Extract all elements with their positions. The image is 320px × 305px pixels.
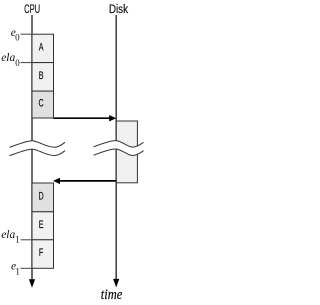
label CPU <box>24 4 40 17</box>
svg-text:time: time <box>101 286 123 302</box>
svg-text:Disk: Disk <box>109 3 128 16</box>
disk service box <box>116 121 137 183</box>
svg-text:D: D <box>39 189 44 202</box>
box E <box>32 212 54 240</box>
box B <box>32 63 54 92</box>
label e0 <box>11 27 20 43</box>
box D <box>32 183 54 212</box>
request arrow CPU to Disk <box>54 115 117 121</box>
svg-text:1: 1 <box>15 235 20 245</box>
Disk timeline <box>115 15 117 280</box>
CPU timeline <box>31 15 33 280</box>
label time <box>101 286 123 302</box>
svg-text:F: F <box>39 245 44 258</box>
svg-text:B: B <box>39 68 44 81</box>
box F <box>32 240 54 268</box>
tick e1 <box>21 267 33 269</box>
label ela0 <box>1 52 20 68</box>
svg-text:C: C <box>39 96 44 109</box>
Disk break wave lower <box>94 149 144 156</box>
svg-text:ela: ela <box>1 52 15 64</box>
svg-text:0: 0 <box>15 33 20 43</box>
svg-text:1: 1 <box>15 266 20 276</box>
tick ela0 <box>21 62 33 64</box>
box C <box>32 91 54 118</box>
svg-text:E: E <box>39 217 44 230</box>
CPU break wave upper <box>10 141 66 148</box>
Disk break wave upper <box>94 141 144 148</box>
label ela1 <box>1 229 20 245</box>
CPU timeline end arrowhead <box>29 279 35 288</box>
box A <box>32 34 54 62</box>
completion arrow Disk to CPU <box>53 178 116 184</box>
svg-text:A: A <box>39 40 44 53</box>
svg-text:CPU: CPU <box>24 4 40 17</box>
tick ela1 <box>21 239 33 241</box>
Disk break white band <box>94 141 144 156</box>
CPU break white band <box>10 141 66 156</box>
svg-text:0: 0 <box>15 58 20 68</box>
Disk timeline end arrowhead <box>113 279 119 288</box>
label e1 <box>11 261 20 277</box>
svg-text:ela: ela <box>1 229 15 241</box>
CPU break wave lower <box>10 149 66 156</box>
label Disk <box>109 3 128 16</box>
tick e0 <box>21 33 33 35</box>
